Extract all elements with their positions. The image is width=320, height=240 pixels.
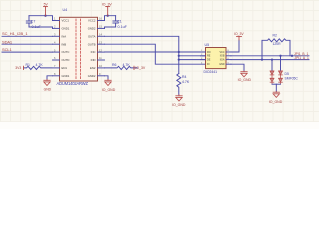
svg-text:IO_GND: IO_GND	[238, 78, 252, 82]
ground symbol IO_GND under U4	[105, 80, 111, 86]
resistor R1 4.7K pullup on EN1	[24, 66, 52, 69]
svg-text:INC: INC	[91, 50, 96, 54]
ground symbol IO_GND bottom right	[273, 92, 279, 98]
svg-text:SC_H1_I2B_1: SC_H1_I2B_1	[2, 31, 28, 36]
svg-text:DE: DE	[207, 58, 211, 61]
node junction VCC2	[107, 15, 109, 17]
wire U5 GND to ground	[231, 64, 244, 71]
wire B line U5 to JPI1_B_1	[231, 55, 309, 57]
svg-text:5V: 5V	[44, 2, 49, 6]
ground symbol IO_GND under R4	[176, 95, 182, 101]
wire pin9 GND2 to ground	[105, 76, 109, 80]
svg-text:VCC2: VCC2	[88, 19, 96, 23]
U5 left pin names	[207, 51, 211, 66]
svg-text:IND: IND	[91, 58, 96, 62]
svg-text:GND1: GND1	[62, 27, 70, 31]
svg-text:JPI1_A_1: JPI1_A_1	[295, 56, 309, 60]
svg-text:0.1uF: 0.1uF	[118, 25, 128, 29]
svg-text:GND: GND	[219, 63, 225, 66]
svg-text:DI: DI	[207, 63, 210, 66]
svg-text:GND2: GND2	[88, 27, 96, 31]
svg-text:VCC: VCC	[219, 51, 224, 54]
node junction VCC1	[44, 15, 46, 17]
node junction R2 left on wire B	[261, 58, 263, 60]
node junction row1	[178, 51, 180, 53]
wire INC pin12 to U5 row1	[105, 51, 206, 53]
wire net SCL1 pin5	[2, 51, 53, 53]
svg-text:IO_3V: IO_3V	[234, 32, 244, 36]
svg-text:INA: INA	[62, 34, 67, 38]
svg-text:R1: R1	[26, 63, 31, 67]
svg-text:D5: D5	[285, 72, 289, 76]
svg-text:U5: U5	[205, 43, 210, 47]
wire U5 VCC to power	[231, 40, 239, 52]
svg-text:IO_GND: IO_GND	[172, 103, 186, 107]
U4 left pin names	[62, 19, 70, 78]
wire VCC1 pin1 jog	[29, 16, 53, 21]
wire OUTB pin13 lower route	[105, 44, 206, 64]
svg-text:OUTA: OUTA	[88, 34, 96, 38]
node junction diode col1	[271, 58, 273, 60]
svg-text:GND2: GND2	[88, 74, 96, 78]
U4 right pin names	[88, 19, 96, 78]
net tick IO_3V	[133, 66, 135, 69]
svg-text:IO_3V: IO_3V	[135, 66, 146, 70]
resistor R6 4.7K pullup on EN2	[105, 66, 138, 69]
svg-text:4.7K: 4.7K	[182, 80, 190, 84]
svg-text:OUTD: OUTD	[62, 58, 70, 62]
TVS diode column 2	[280, 56, 282, 71]
isolation dashed line right	[80, 19, 82, 80]
svg-text:R2: R2	[273, 34, 277, 38]
U5 left pin stubs	[201, 52, 206, 60]
svg-text:R6: R6	[112, 63, 117, 67]
capacitor C1	[113, 16, 118, 27]
capacitor C7	[26, 16, 31, 27]
wire OUTA pin14 down x178.8	[105, 36, 179, 73]
wire GND2 pin15 jog	[105, 27, 116, 28]
U5 right pin stubs	[226, 52, 231, 64]
IC U5 body	[206, 48, 227, 69]
svg-text:EN2: EN2	[90, 66, 96, 70]
node junction row2	[178, 55, 180, 57]
U4 right pin stubs	[98, 21, 105, 76]
svg-text:SCL1: SCL1	[2, 47, 12, 52]
svg-text:ADUM1402ARWZ: ADUM1402ARWZ	[57, 81, 89, 86]
U5 right pin names	[219, 51, 225, 66]
wire GND1 pin2 jog	[29, 27, 53, 28]
svg-text:120R: 120R	[273, 42, 282, 46]
node junction diode col2	[279, 55, 281, 57]
wire U5 row3	[179, 59, 206, 61]
svg-text:4.7K: 4.7K	[36, 63, 44, 67]
svg-text:C7: C7	[31, 20, 36, 24]
power port IO_3V top	[106, 7, 110, 16]
U4 left pin stubs	[53, 21, 60, 76]
IC U4 body	[60, 17, 98, 81]
svg-text:RO: RO	[207, 51, 211, 54]
resistor R2 120R termination	[262, 39, 290, 60]
power port 5V left	[44, 7, 48, 16]
svg-text:SDA1: SDA1	[2, 39, 13, 44]
wire VCC2 pin16 jog	[105, 16, 116, 21]
node junction R2 right on wire A	[291, 55, 293, 57]
ground symbol GND left	[44, 80, 50, 86]
svg-text:VCC1: VCC1	[62, 19, 70, 23]
svg-text:DIO2441: DIO2441	[204, 70, 218, 74]
svg-text:IO_3V: IO_3V	[102, 2, 113, 6]
svg-text:OUTC: OUTC	[62, 50, 70, 54]
resistor R4 4.7K to ground	[177, 74, 181, 95]
node junction row3	[178, 58, 180, 60]
wire net SD1 pin4	[2, 43, 53, 45]
svg-text:3V3: 3V3	[15, 66, 21, 70]
svg-text:EN1: EN1	[62, 66, 68, 70]
svg-text:C1: C1	[117, 20, 122, 24]
svg-text:OUTB: OUTB	[88, 42, 96, 46]
wire pin8 GND1 to ground	[47, 76, 53, 80]
wire diodes join to ground	[272, 83, 281, 85]
svg-text:INB: INB	[62, 42, 67, 46]
ground symbol IO_GND right of U5	[241, 71, 247, 77]
svg-text:IO_GND: IO_GND	[102, 88, 116, 92]
wire net SC_H1_I2B_1 pin3	[2, 35, 53, 37]
net tick 3V3	[23, 66, 25, 69]
wire A line U5 to JPI1_A_1	[231, 59, 309, 61]
wire U5 row2	[179, 55, 206, 57]
svg-text:RE: RE	[207, 55, 211, 58]
svg-text:I/OB: I/OB	[220, 55, 225, 58]
isolation dashed line left	[75, 19, 77, 80]
svg-text:SMF05C: SMF05C	[285, 77, 299, 81]
svg-text:U4: U4	[63, 8, 68, 12]
svg-text:I/OA: I/OA	[220, 58, 225, 61]
svg-text:GND1: GND1	[62, 74, 70, 78]
TVS diode column 1	[271, 60, 273, 71]
U4 left pin numbers	[54, 17, 56, 76]
U4 right pin numbers	[99, 17, 102, 76]
power port IO_3V above U5	[237, 37, 242, 40]
svg-text:4.7K: 4.7K	[123, 63, 131, 67]
U5 pin numbers	[201, 50, 230, 64]
svg-text:R4: R4	[182, 75, 187, 79]
svg-text:GND: GND	[44, 88, 52, 92]
svg-text:IO_GND: IO_GND	[269, 100, 283, 104]
